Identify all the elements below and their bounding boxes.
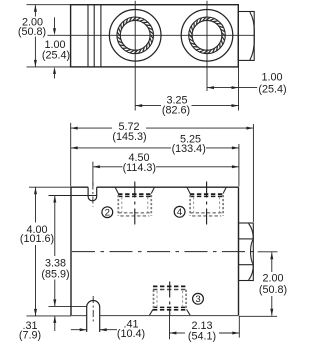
svg-text:4: 4 [177,207,183,218]
main horizontal centerline front view [72,251,256,253]
svg-text:3.38: 3.38 [45,257,66,269]
top view partition line c [100,5,102,67]
dim 3.38 line [54,196,56,257]
port 4 centerline [206,182,208,228]
ext lines 2.00 right [258,251,278,253]
ext block right up (5.25/4.50) [238,144,240,187]
dim 5.25 line [71,147,171,149]
thread side dashed port 3 [154,290,187,309]
4.50 arrows [93,165,100,168]
front view left edge [70,187,72,315]
svg-text:(25.4): (25.4) [258,84,286,96]
svg-text:(54.1): (54.1) [188,330,216,342]
hex plug front view right [239,223,254,281]
ext block right down (2.13) [238,316,240,338]
svg-text:2.00: 2.00 [262,273,283,285]
dim 4.50 line [93,166,122,168]
5.72 arrows [71,127,78,130]
bottom dashed lines port 2 [118,213,151,216]
port labels [102,206,204,304]
vertical centerline circle 1 / ext for 3.25 [134,1,136,111]
.41 arrows [80,328,87,331]
horizontal centerline [48,34,255,36]
front view top edge [71,186,88,188]
3.38 arrows [53,196,56,203]
dim 3.25 line [135,105,161,107]
top view partition line a [87,5,89,67]
dim .41 line [71,329,87,331]
slant corners port 2 [115,187,154,193]
dim 4.00 line [35,187,37,222]
svg-text:(145.3): (145.3) [112,131,146,143]
label 3 circle [193,293,204,304]
ext left edge up (5.72/5.25) [70,123,72,187]
centerlines top view [48,1,255,111]
2.13 arrows [169,332,176,335]
thread hatch ring 2 [189,17,226,54]
bottom mounting slot [87,301,100,333]
dim 2.13 line [169,332,185,334]
slant corners port 3 [150,309,191,315]
thread side dashed port 4 [190,195,223,216]
svg-text:2: 2 [105,208,110,219]
dim 2.00 line [271,252,273,272]
thread hatch ring 1 [117,17,154,54]
svg-text:(7.9): (7.9) [19,330,41,342]
thread top dashed rows port 4 [190,193,223,195]
ext hex right up (5.72) [252,124,254,222]
dim .31 stem [54,316,56,331]
4.00 arrows [34,187,37,194]
thread bottom dashed rows port 3 [153,309,187,311]
port 3 centerline / ext [169,282,171,317]
top view body outline [71,5,239,67]
thread side dashed port 2 [118,195,151,216]
label 2 circle [102,207,113,218]
arrows front dims [34,127,273,335]
dim 5.72 line [71,127,112,129]
port circle 2 (top view) [181,10,233,62]
thread top dashed rows port 2 [118,193,151,195]
left ext lines front [29,186,71,188]
2.00 arrows [270,252,273,259]
ext slot center up (4.50) [92,162,94,186]
5.25 arrows [71,146,78,149]
svg-text:(50.8): (50.8) [18,26,46,38]
svg-text:(85.9): (85.9) [41,269,69,281]
slant corners port 4 [187,187,226,193]
vertical centerline circle 2 / ext for 1.00 [206,1,208,91]
port 2 centerline [134,182,136,228]
dim 1.00 right line [207,87,257,89]
port circle 1 (top view) [109,10,161,62]
.31 arrow [53,316,56,323]
bottom dashed lines port 4 [190,213,223,216]
svg-text:1.00: 1.00 [261,72,282,84]
svg-text:(82.6): (82.6) [162,105,190,117]
top view partition line b [93,5,95,67]
svg-text:(101.6): (101.6) [20,233,54,245]
svg-text:(25.4): (25.4) [42,49,70,61]
ext line top left [27,4,71,6]
top mounting slot [88,187,97,201]
hex plug side view (top view right end) [238,12,254,61]
dim 2.00 vertical line [34,5,36,17]
svg-text:(10.4): (10.4) [117,328,145,340]
texts front dims [19,121,287,342]
arrows top view dims [34,5,239,107]
bottom slot centerline [92,296,94,322]
svg-text:(114.3): (114.3) [123,162,156,174]
svg-text:(50.8): (50.8) [259,284,287,296]
top dashed lines port 3 [153,285,187,287]
svg-text:3: 3 [195,294,200,305]
front view bottom edge [71,315,239,317]
texts top view dims [18,17,287,117]
svg-text:(133.4): (133.4) [172,143,206,155]
label 4 circle [174,206,185,217]
front view right edge [238,187,240,315]
ext right edge below top view [238,67,240,111]
dim 1.00 left stems [54,17,56,31]
ext line bottom left of top view [27,66,75,68]
top slot centerline [92,183,94,207]
